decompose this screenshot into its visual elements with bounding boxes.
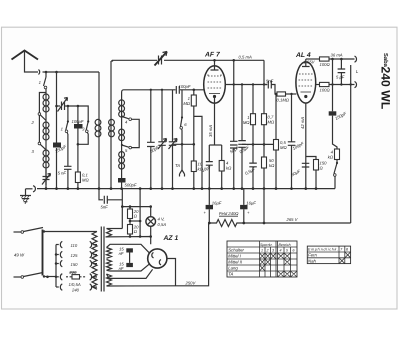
wire: switch loop x139 (131, 119, 139, 147)
svg-text:Feld 240Ω: Feld 240Ω (219, 211, 239, 216)
wire: cathode jog (194, 116, 202, 188)
resistor 1MOhm (detector) (243, 85, 256, 145)
wire: anode lead lower (107, 264, 150, 271)
node x253 y84.5 (252, 83, 254, 85)
T1 right winding (2 sections) (109, 61, 115, 189)
node x140.1 y221 (139, 220, 142, 223)
svg-text:Sperrkr.: Sperrkr. (260, 243, 273, 247)
T2 HT winding upper (107, 248, 112, 259)
wire: screen rail y84.5 (225, 84, 267, 86)
resistor 10kOhm (191, 106, 203, 189)
svg-text:36 mA: 36 mA (331, 53, 343, 58)
node x332.5 y84.5 (331, 83, 333, 85)
wire: detector link y144.4 (242, 143, 276, 145)
svg-text:1,55V: 1,55V (304, 60, 316, 65)
wire: anode lead upper (107, 244, 150, 253)
svg-text:kΩ: kΩ (226, 166, 232, 171)
svg-text:150: 150 (71, 262, 79, 267)
resistor 4kOhm (cathode) (219, 145, 232, 189)
antenna coil L1 section a (43, 92, 49, 121)
node grid bus x151 (150, 89, 152, 91)
resistor 100Ohm (bottom) (320, 82, 355, 92)
node x193.8 y144 (193, 143, 196, 146)
svg-text:MΩ: MΩ (280, 145, 287, 150)
wire: AF7 cathode x214.5 (214, 103, 216, 145)
switch 4 (121, 115, 132, 124)
resistor 150Ohm (AL4 cathode) (306, 157, 327, 189)
variable capacitor C tune 1 (158, 90, 167, 189)
wire: grid bus y89.8 (124, 89, 205, 91)
T2 HT winding lower (107, 260, 112, 271)
svg-text:240 WL: 240 WL (379, 67, 393, 110)
resistor 0,1MOhm (AL4 grid stopper) (277, 92, 297, 103)
wire: cathode loop top (209, 144, 221, 146)
transformer primary receptacles (90, 241, 97, 290)
node x233.75 y84.5 (233, 83, 235, 85)
svg-text:Fern: Fern (308, 253, 317, 258)
oscillator coil L2 section b (119, 117, 125, 145)
wire: AL4 cathode column (305, 103, 307, 189)
wire: x140.1 column (139, 189, 141, 237)
node trimmer branch (55, 105, 58, 108)
capacitor 15nF upper (119, 247, 133, 257)
svg-text:2: 2 (266, 249, 269, 253)
resistor 4kOhm (tone) (328, 116, 340, 160)
T2 rectifier filament winding (107, 274, 112, 286)
tone capacitor 150pF (329, 59, 348, 121)
svg-text:nF: nF (119, 266, 124, 271)
svg-text:MΩ: MΩ (243, 120, 250, 125)
capacitor 10uF (cathode) (201, 145, 213, 189)
node antenna/trimmer line (55, 71, 58, 74)
capacitor 0,5uF (screen) (238, 85, 250, 189)
capacitor 15nF lower (119, 253, 133, 272)
svg-text:3: 3 (272, 249, 274, 253)
speaker jack bottom (355, 82, 357, 88)
chassis jack (26, 186, 36, 192)
capacitor 500pF (118, 178, 137, 189)
wire: top rail y60 (111, 59, 264, 62)
svg-text:100pF: 100pF (179, 84, 191, 89)
svg-text:0,1MΩ: 0,1MΩ (277, 98, 290, 103)
capacitor 5nF (trap) (58, 166, 72, 188)
speaker jack top (355, 56, 357, 62)
selector plug 110 (56, 241, 78, 248)
node x140.1 y236.5 (139, 235, 142, 238)
svg-text:Bereich: Bereich (279, 243, 291, 247)
resistor 0,1MOhm (75, 144, 89, 188)
svg-text:kΩ: kΩ (269, 163, 275, 168)
node x67.9 (67, 105, 70, 108)
svg-text:5nF: 5nF (266, 79, 274, 84)
electrolytic 16uF no2 (240, 189, 256, 223)
node x242 y84.5 (241, 83, 243, 85)
svg-text:TA: TA (175, 163, 180, 168)
wire: AL4 cathode rail y84.5 (316, 84, 320, 86)
svg-text:4: 4 (280, 249, 282, 253)
wire: AF7 anode rail to detector (263, 60, 265, 84)
selector plug 220 with fuse (55, 270, 86, 287)
node x182 y144 (181, 143, 184, 146)
selector plug 150 (55, 260, 78, 267)
node x341.4 y59 (340, 58, 343, 61)
node x233.75 y60 (232, 59, 235, 62)
svg-text:265 V: 265 V (286, 217, 299, 222)
svg-text:5: 5 (286, 249, 288, 253)
svg-text:5 μF: 5 μF (336, 75, 345, 80)
svg-text:Mittel II: Mittel II (228, 260, 243, 265)
svg-text:100Ω: 100Ω (320, 62, 331, 67)
title Saba 240 WL (379, 53, 393, 110)
svg-text:1/0,5A: 1/0,5A (69, 282, 81, 287)
svg-text:49 W: 49 W (14, 253, 25, 258)
node x350.7 y84.5 (350, 83, 352, 85)
svg-text:MΩ: MΩ (268, 120, 275, 125)
capacitor 100pF (AL4 grid) (288, 94, 305, 189)
svg-text:1: 1 (261, 249, 263, 253)
svg-text:kΩ: kΩ (328, 155, 334, 160)
node x243.8 y223 (242, 222, 245, 225)
antenna jack (39, 70, 40, 75)
svg-text:Mittel I: Mittel I (228, 254, 241, 259)
oscillator coil L2 section c (119, 145, 125, 178)
wire: trimmer line x56.5 (56, 72, 58, 189)
resistor 50kOhm (262, 143, 276, 189)
resistor 0,7MOhm (262, 85, 275, 145)
tube AF7 U1 (204, 52, 226, 104)
wire: speaker return x350.7 (350, 65, 352, 223)
svg-text:4 V,: 4 V, (158, 217, 165, 222)
svg-text:MΩ: MΩ (183, 101, 190, 106)
sensitivity table (307, 246, 350, 264)
node x264 y84.5 (263, 83, 265, 85)
wire: main chassis bus y188.6 (37, 188, 335, 190)
capacitor 5nF (mains) (99, 189, 122, 210)
capacitor 5nF (coupling) (264, 79, 277, 95)
antenna (12, 51, 39, 73)
switch 1 (trap) (61, 106, 69, 134)
node x332.5 y59 (331, 58, 334, 61)
svg-text:16μF: 16μF (212, 200, 222, 205)
svg-text:5nF: 5nF (101, 205, 109, 210)
svg-text:42 mA: 42 mA (300, 117, 305, 129)
capacitor (cathode bypass) (290, 163, 309, 177)
capacitor 0,5uF (AF) (244, 143, 257, 189)
resistor 20Ohm (upper) (128, 207, 140, 221)
svg-text:500pF: 500pF (125, 183, 137, 188)
wire: 265V rail (244, 222, 351, 224)
wire: filament lead top (107, 269, 153, 278)
capacitor 100pF series (AF7 grid) (176, 84, 191, 94)
switch 5 (121, 144, 132, 153)
svg-text:Schalter: Schalter (228, 248, 244, 253)
switch 2 (31, 113, 47, 125)
svg-text:0,5A: 0,5A (158, 222, 167, 227)
svg-text:Empfindlichk.: Empfindlichk. (308, 248, 338, 252)
svg-text:nF: nF (119, 251, 124, 256)
node x77.9 (77, 105, 80, 108)
svg-text:TA: TA (228, 272, 233, 277)
capacitor 100pF (trap) (72, 106, 84, 144)
node x47 y277 (46, 276, 49, 279)
svg-text:125: 125 (71, 253, 79, 258)
antenna coil L1 section c (43, 148, 49, 186)
oscillator coil L2 section a (119, 90, 125, 117)
wire: AZ1 output loop (167, 259, 176, 286)
svg-text:100pF: 100pF (72, 119, 84, 124)
node x150.7 y236.5 (149, 235, 152, 238)
voltage selector bus (55, 245, 57, 288)
electrolytic 16uF no1 (204, 189, 222, 223)
wire x67.9 to 5nF (67, 134, 69, 166)
wire: branch bus y106 (68, 106, 88, 121)
pilot lamp 4V 0,5A (146, 207, 166, 237)
svg-text:MΩ: MΩ (82, 178, 89, 183)
transformer T2 primary winding (92, 232, 97, 290)
node AF7 anode top (213, 59, 216, 62)
series trimmer capacitor (osc) (155, 52, 168, 66)
field coil Feld 240 Ohm (209, 211, 244, 227)
capacitor 50pF (anode) (229, 60, 240, 188)
node x264 y223 (263, 222, 266, 225)
selector plug 240 (56, 284, 80, 293)
svg-text:8: 8 (346, 248, 348, 252)
svg-text:110: 110 (71, 243, 78, 248)
T2 core (101, 227, 104, 292)
svg-text:Nah: Nah (308, 258, 316, 263)
mains switch (DPST) (14, 228, 46, 279)
resistor 100Ohm (top) (320, 57, 355, 67)
wire: filament lead bottom / 250V return (107, 223, 209, 286)
wire: pilot winding top lead (107, 228, 123, 230)
wire: primary top lead (44, 231, 97, 233)
node grid bus x162 (161, 89, 163, 91)
wave trap loop wire (39, 93, 46, 113)
node x130 y221 (129, 220, 132, 223)
trimmer capacitor (padder) (57, 98, 68, 112)
node antenna/coil (45, 71, 48, 74)
tube AL4 U2 (295, 52, 316, 103)
trimmer capacitor (antenna coil bottom) (42, 169, 51, 189)
RF transformer T1 left winding (95, 72, 101, 189)
svg-text:16μF: 16μF (246, 200, 256, 205)
T2 secondary 4V pilot winding (107, 229, 112, 237)
capacitor 5uF (336, 59, 345, 85)
wire: 50k lower leg (263, 189, 265, 223)
resistor 0,5MOhm (274, 94, 288, 189)
variable capacitor C tune 2 (169, 90, 178, 189)
svg-text:Saba: Saba (382, 53, 389, 68)
node x130 y206.6 (129, 205, 132, 208)
TA pickup terminal fork (175, 144, 185, 176)
node x130 y236.5 (129, 235, 132, 238)
switch table (227, 241, 297, 277)
node grid x193.8 (193, 89, 196, 92)
wire: AL4 plate rail y59 (306, 58, 320, 60)
svg-text:250V: 250V (185, 280, 197, 285)
wire: pilot bottom y236.5 (106, 237, 151, 245)
svg-text:5 nF: 5 nF (58, 171, 67, 176)
ground (20, 189, 31, 204)
node x150.7 y206.6 (149, 205, 152, 208)
switch 1 (antenna) (39, 72, 47, 92)
node x77.9 y144 (77, 143, 80, 146)
antenna coil L1 section b (43, 121, 49, 148)
wire: switch to voltage selector (44, 276, 56, 278)
node x209.3 y223 (208, 222, 211, 225)
capacitor 50pF series (147, 90, 160, 189)
svg-text:AL 4: AL 4 (295, 52, 311, 59)
tone switch (334, 160, 339, 189)
svg-text:AZ 1: AZ 1 (163, 235, 179, 242)
switch 3 (32, 142, 47, 154)
wire y144.3 varcap2 to TA column (173, 143, 194, 145)
svg-text:100Ω: 100Ω (320, 88, 331, 93)
resistor 1MOhm (AF7 grid leak) (183, 90, 196, 106)
switch 6 (180, 90, 187, 145)
svg-text:6: 6 (293, 249, 295, 253)
switch 3 (trap) (78, 120, 89, 144)
svg-text:AF 7: AF 7 (204, 52, 221, 59)
bus junction dots (45, 187, 318, 190)
wire: antenna bus y72 (43, 71, 100, 73)
node x341.4 y84.5 (340, 83, 342, 85)
resistor 20Ohm (lower) (128, 221, 140, 237)
wire: pilot column x122.3 (121, 189, 123, 229)
node x122.3 y206.6 (121, 205, 124, 208)
node x276 grid wire (275, 93, 277, 95)
svg-text:35 mA: 35 mA (208, 125, 213, 137)
rectifier tube AZ1 (148, 235, 179, 268)
svg-text:1: 1 (61, 127, 63, 132)
svg-text:0,5 mA: 0,5 mA (239, 54, 252, 59)
selector plug 125 (55, 251, 78, 258)
svg-text:1: 1 (39, 80, 41, 85)
wire: loop lower (38, 116, 40, 143)
wire: pilot feed y206.6 (122, 206, 150, 208)
svg-text:240: 240 (71, 288, 80, 293)
svg-text:Lang: Lang (228, 266, 238, 271)
capacitor 250pF (53, 143, 67, 155)
wire: pilot mid y221 (130, 220, 140, 222)
node AL4 grid x291.5 (290, 93, 292, 95)
